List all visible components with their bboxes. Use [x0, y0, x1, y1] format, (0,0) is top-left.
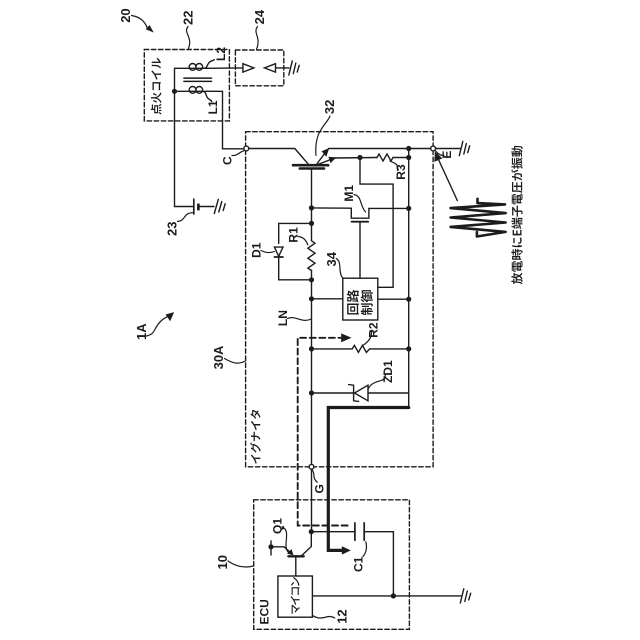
svg-text:R2: R2 — [366, 322, 380, 338]
junction dot: ZD1 tap — [309, 390, 314, 395]
wire: thick discharge path — [328, 408, 408, 551]
wire: microcomputer to ground rail — [312, 595, 461, 597]
leader 34 — [336, 259, 342, 279]
microcomputer box 12 — [278, 576, 313, 617]
wire: M1 drain to right rail — [369, 207, 409, 209]
wire: sense branch down to M1 drain loop — [360, 158, 393, 288]
wire: Q1 collector — [302, 532, 311, 556]
transformer core — [184, 77, 212, 79]
spark plug electrode left — [243, 64, 254, 72]
leader LN — [288, 318, 312, 321]
junction dot: M1 drain / right rail — [406, 206, 411, 211]
leader Q1 — [282, 527, 289, 553]
arrow from label 20 — [132, 16, 148, 28]
svg-text:20: 20 — [118, 8, 133, 22]
junction dot: sense rail / right rail — [406, 155, 411, 160]
inductor L2 (secondary winding) — [189, 60, 214, 71]
leader C1 — [363, 542, 366, 557]
svg-text:24: 24 — [252, 9, 267, 24]
junction dot: L1 tap on left bus — [172, 89, 177, 94]
wire: L1 right lead down to collector line — [207, 91, 244, 149]
waveform oscillation — [451, 199, 506, 237]
ECU box 10 (dashed) — [254, 500, 410, 630]
Q1 emitter supply stub — [270, 541, 272, 555]
wire: node to capacitor C1 — [311, 531, 355, 533]
dashed signal path IGt — [298, 338, 350, 526]
junction dot: Q1 emitter stub — [268, 544, 273, 549]
junction dot: ECU main node — [309, 529, 314, 534]
label マイコン — [290, 577, 299, 614]
transistor 32 main emitter — [317, 150, 327, 164]
arrowhead main emitter — [322, 148, 330, 157]
leader R3 — [390, 161, 398, 171]
svg-text:1A: 1A — [134, 323, 149, 340]
junction dot: R2 right — [406, 346, 411, 351]
leader C — [232, 151, 244, 156]
junction dot: control circuit left — [309, 296, 314, 301]
svg-text:L1: L1 — [206, 100, 220, 114]
leader M1 — [354, 195, 366, 213]
wire: L2 to spark plug — [207, 67, 243, 69]
leader 23 — [178, 213, 194, 222]
junction dot: return wire — [391, 593, 396, 598]
battery 23 long plate — [193, 199, 195, 214]
wire: battery to ground — [198, 206, 214, 208]
ground (emitter rail) — [459, 141, 469, 155]
svg-text:R3: R3 — [394, 164, 408, 180]
arrowhead discharge path — [342, 546, 351, 554]
junction dot: R2 left — [309, 346, 314, 351]
arrow from label 1A — [147, 316, 170, 337]
transistor 32 sense emitter — [318, 159, 333, 165]
wire: Q1 base lead to microcomputer — [295, 557, 297, 576]
svg-text:C1: C1 — [351, 556, 365, 572]
svg-text:22: 22 — [181, 11, 196, 25]
svg-text:C: C — [221, 156, 235, 165]
wire: Q1 emitter — [271, 547, 292, 554]
wire: spark plug to ground — [276, 67, 290, 69]
zener ZD1 cathode bar with hooks — [349, 385, 359, 402]
leader 22 — [187, 27, 190, 49]
arrowhead Q1 emitter — [287, 549, 293, 555]
junction dot: sense rail M1 branch — [357, 155, 362, 160]
arrowhead signal path — [341, 333, 351, 342]
wire: ZD1 anode side — [312, 392, 354, 394]
svg-text:E: E — [440, 151, 454, 159]
leader G — [312, 470, 317, 483]
wire: C1 to microcomputer return — [364, 532, 393, 596]
wire: L1 left lead — [175, 90, 190, 92]
arrowhead annotation — [434, 152, 442, 162]
junction dot: D1 branch top — [309, 221, 314, 226]
node C circle — [244, 146, 249, 151]
ground (spark plug) — [289, 61, 299, 75]
svg-text:M1: M1 — [342, 185, 356, 202]
leader E — [435, 151, 444, 156]
junction dot: control circuit right rail — [406, 297, 411, 302]
junction dot: gate node at M1 — [309, 205, 314, 210]
wire: E node to ground — [435, 148, 460, 150]
transistor 32 second bar — [300, 167, 324, 170]
wire: R2 rail right — [370, 348, 409, 350]
wire: emitter rail to E node — [329, 148, 431, 150]
leader 30A — [225, 359, 246, 364]
capacitor C1 left plate — [354, 523, 356, 540]
svg-text:ECU: ECU — [258, 599, 272, 624]
annotation arrow to E node — [439, 160, 458, 201]
wire: gate line D1R1 section — [311, 223, 313, 240]
wire: collector rail from node C to IGBT — [249, 149, 308, 164]
leader ZD1 — [369, 374, 386, 389]
leader R2 — [363, 332, 372, 346]
ground (ECU rail) — [460, 589, 470, 603]
leader 24 — [256, 27, 258, 50]
leader 10 — [228, 561, 253, 567]
zener ZD1 triangle — [355, 385, 369, 401]
igniter box 30A (dashed) — [246, 132, 434, 467]
wire: IGBT gate lead down — [311, 169, 313, 224]
wire: M1 gate lead to control circuit — [359, 222, 361, 279]
transistor M1 gate bar — [352, 221, 369, 223]
wire: L2 left lead + left vertical bus + battery feed — [175, 68, 194, 206]
wire: R2 rail left — [312, 348, 353, 350]
control circuit box 34 — [343, 278, 378, 320]
svg-text:R1: R1 — [286, 227, 300, 243]
diode D1 cathode bar — [274, 256, 283, 258]
battery 23 short plate — [197, 204, 200, 211]
svg-text:32: 32 — [322, 100, 337, 114]
leader R1 — [298, 237, 308, 245]
label 制御回路 — [347, 290, 373, 315]
wire: D1 branch lower — [279, 257, 312, 280]
wire: ZD1 cathode to right rail — [368, 392, 409, 394]
transistor 32 (IGBT) base bar — [293, 164, 328, 167]
spark plug electrode right — [265, 64, 276, 72]
wire: gate node to M1 source — [312, 207, 352, 209]
wire: right rail vertical — [408, 149, 410, 408]
label 放電時にE端子電圧が振動 — [511, 146, 522, 284]
svg-text:10: 10 — [215, 555, 230, 569]
wire: D1 parallel branch — [279, 223, 312, 243]
leader 32 — [316, 116, 330, 156]
transistor M1 (MOSFET) channel staple — [351, 208, 369, 218]
leader 12 — [313, 616, 335, 618]
junction dot: E rail / right rail — [406, 146, 411, 151]
svg-text:23: 23 — [165, 222, 180, 236]
wire: R3 to right rail — [393, 157, 409, 159]
ignition coil box 22 (dashed) — [144, 50, 229, 121]
leader D1 — [261, 251, 274, 253]
wire: G node into ECU — [311, 469, 313, 532]
svg-text:G: G — [312, 484, 326, 493]
ground (battery 23) — [214, 199, 225, 213]
arrowhead sense emitter — [328, 157, 336, 164]
wire: gate line below R1 — [311, 271, 313, 394]
resistor R1 — [308, 241, 315, 271]
node G circle — [309, 464, 314, 469]
svg-text:12: 12 — [334, 609, 349, 623]
diode D1 triangle — [274, 247, 283, 256]
spark plug box 24 (dashed) — [235, 50, 283, 86]
resistor R3 — [377, 154, 393, 161]
junction dot: D1 branch bottom — [309, 277, 314, 282]
svg-text:Q1: Q1 — [270, 518, 284, 534]
capacitor C1 right plate — [363, 523, 365, 540]
wire: control circuit right to right rail — [378, 298, 409, 300]
transistor Q1 base bar — [288, 555, 303, 557]
label イグナイタ — [250, 410, 261, 464]
inductor L1 (primary winding) — [189, 87, 212, 102]
wire: gate line to control circuit left — [312, 298, 343, 300]
wire: sense rail with R3 — [335, 157, 377, 160]
label 点火コイル — [151, 58, 162, 115]
svg-text:30A: 30A — [211, 345, 226, 369]
svg-text:L2: L2 — [214, 47, 228, 61]
node E circle — [431, 146, 436, 151]
wire: gate line to G node — [311, 393, 313, 465]
resistor R2 — [352, 345, 370, 352]
